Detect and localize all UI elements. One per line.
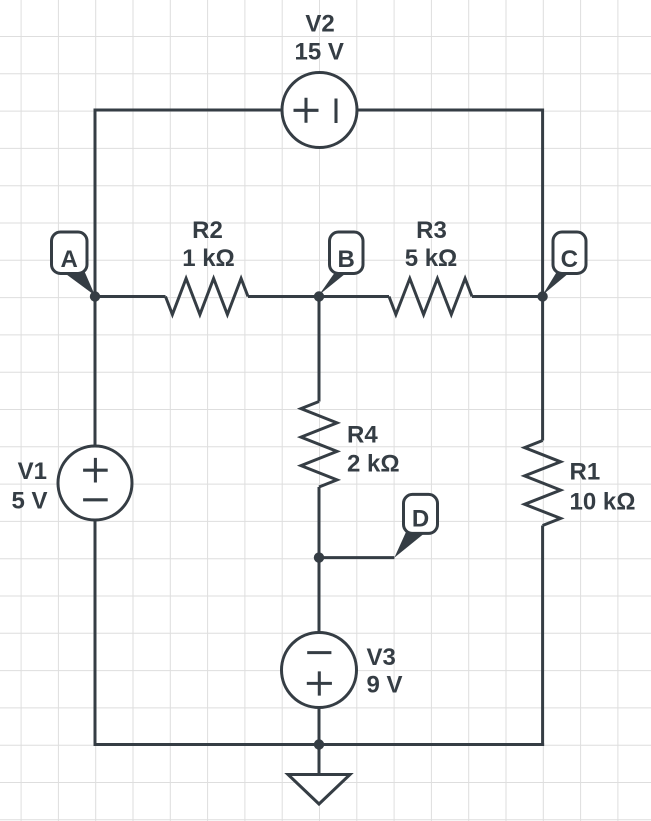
svg-text:R3: R3 <box>416 217 447 244</box>
svg-text:V3: V3 <box>367 644 396 671</box>
wire R3 to C <box>472 295 543 298</box>
ground <box>288 775 350 805</box>
svg-text:1 kΩ: 1 kΩ <box>182 245 235 272</box>
voltage source V3 <box>282 633 357 708</box>
voltage source V2 <box>282 73 357 148</box>
wire right lower <box>541 526 544 747</box>
node B <box>314 232 363 302</box>
wire top right <box>357 109 543 112</box>
svg-text:2 kΩ: 2 kΩ <box>347 451 400 478</box>
label R1 <box>570 459 636 516</box>
node D <box>314 494 438 562</box>
label R4 <box>347 422 400 478</box>
svg-text:V2: V2 <box>305 10 334 37</box>
svg-text:10 kΩ: 10 kΩ <box>570 488 636 515</box>
label V2 <box>295 10 344 65</box>
label R2 <box>182 217 235 272</box>
node bottom junction <box>314 739 324 749</box>
wire R2 to B to R3 <box>248 295 389 298</box>
label R3 <box>405 217 458 272</box>
wire left lower <box>94 520 97 746</box>
wire A to R2 <box>95 295 166 298</box>
wire V3 to bottom <box>318 708 321 745</box>
svg-text:A: A <box>61 246 78 273</box>
resistor R2 <box>166 279 249 315</box>
wire left upper <box>94 109 97 447</box>
wire top left <box>95 109 282 112</box>
wire B down to R4 <box>318 297 321 402</box>
wire right upper <box>541 109 544 441</box>
wire node D stub <box>319 556 394 559</box>
node C <box>537 232 586 302</box>
svg-text:V1: V1 <box>18 458 47 485</box>
wire ground stub <box>318 745 321 775</box>
svg-text:5 V: 5 V <box>11 488 47 515</box>
svg-text:9 V: 9 V <box>367 672 403 699</box>
node A <box>52 232 101 302</box>
resistor R3 <box>389 279 472 315</box>
label V1 <box>11 458 47 515</box>
svg-text:R2: R2 <box>192 217 223 244</box>
svg-text:D: D <box>412 505 429 532</box>
voltage source V1 <box>58 446 132 520</box>
label V3 <box>367 644 403 699</box>
svg-text:B: B <box>338 246 355 273</box>
resistor R1 <box>525 441 561 526</box>
wire R4 to node D to V3 <box>318 487 321 633</box>
svg-text:R1: R1 <box>570 459 601 486</box>
svg-text:C: C <box>561 246 578 273</box>
resistor R4 <box>301 402 337 488</box>
svg-text:5 kΩ: 5 kΩ <box>405 245 458 272</box>
svg-text:R4: R4 <box>347 422 378 449</box>
svg-text:15 V: 15 V <box>295 38 344 65</box>
wire bottom <box>94 743 545 746</box>
